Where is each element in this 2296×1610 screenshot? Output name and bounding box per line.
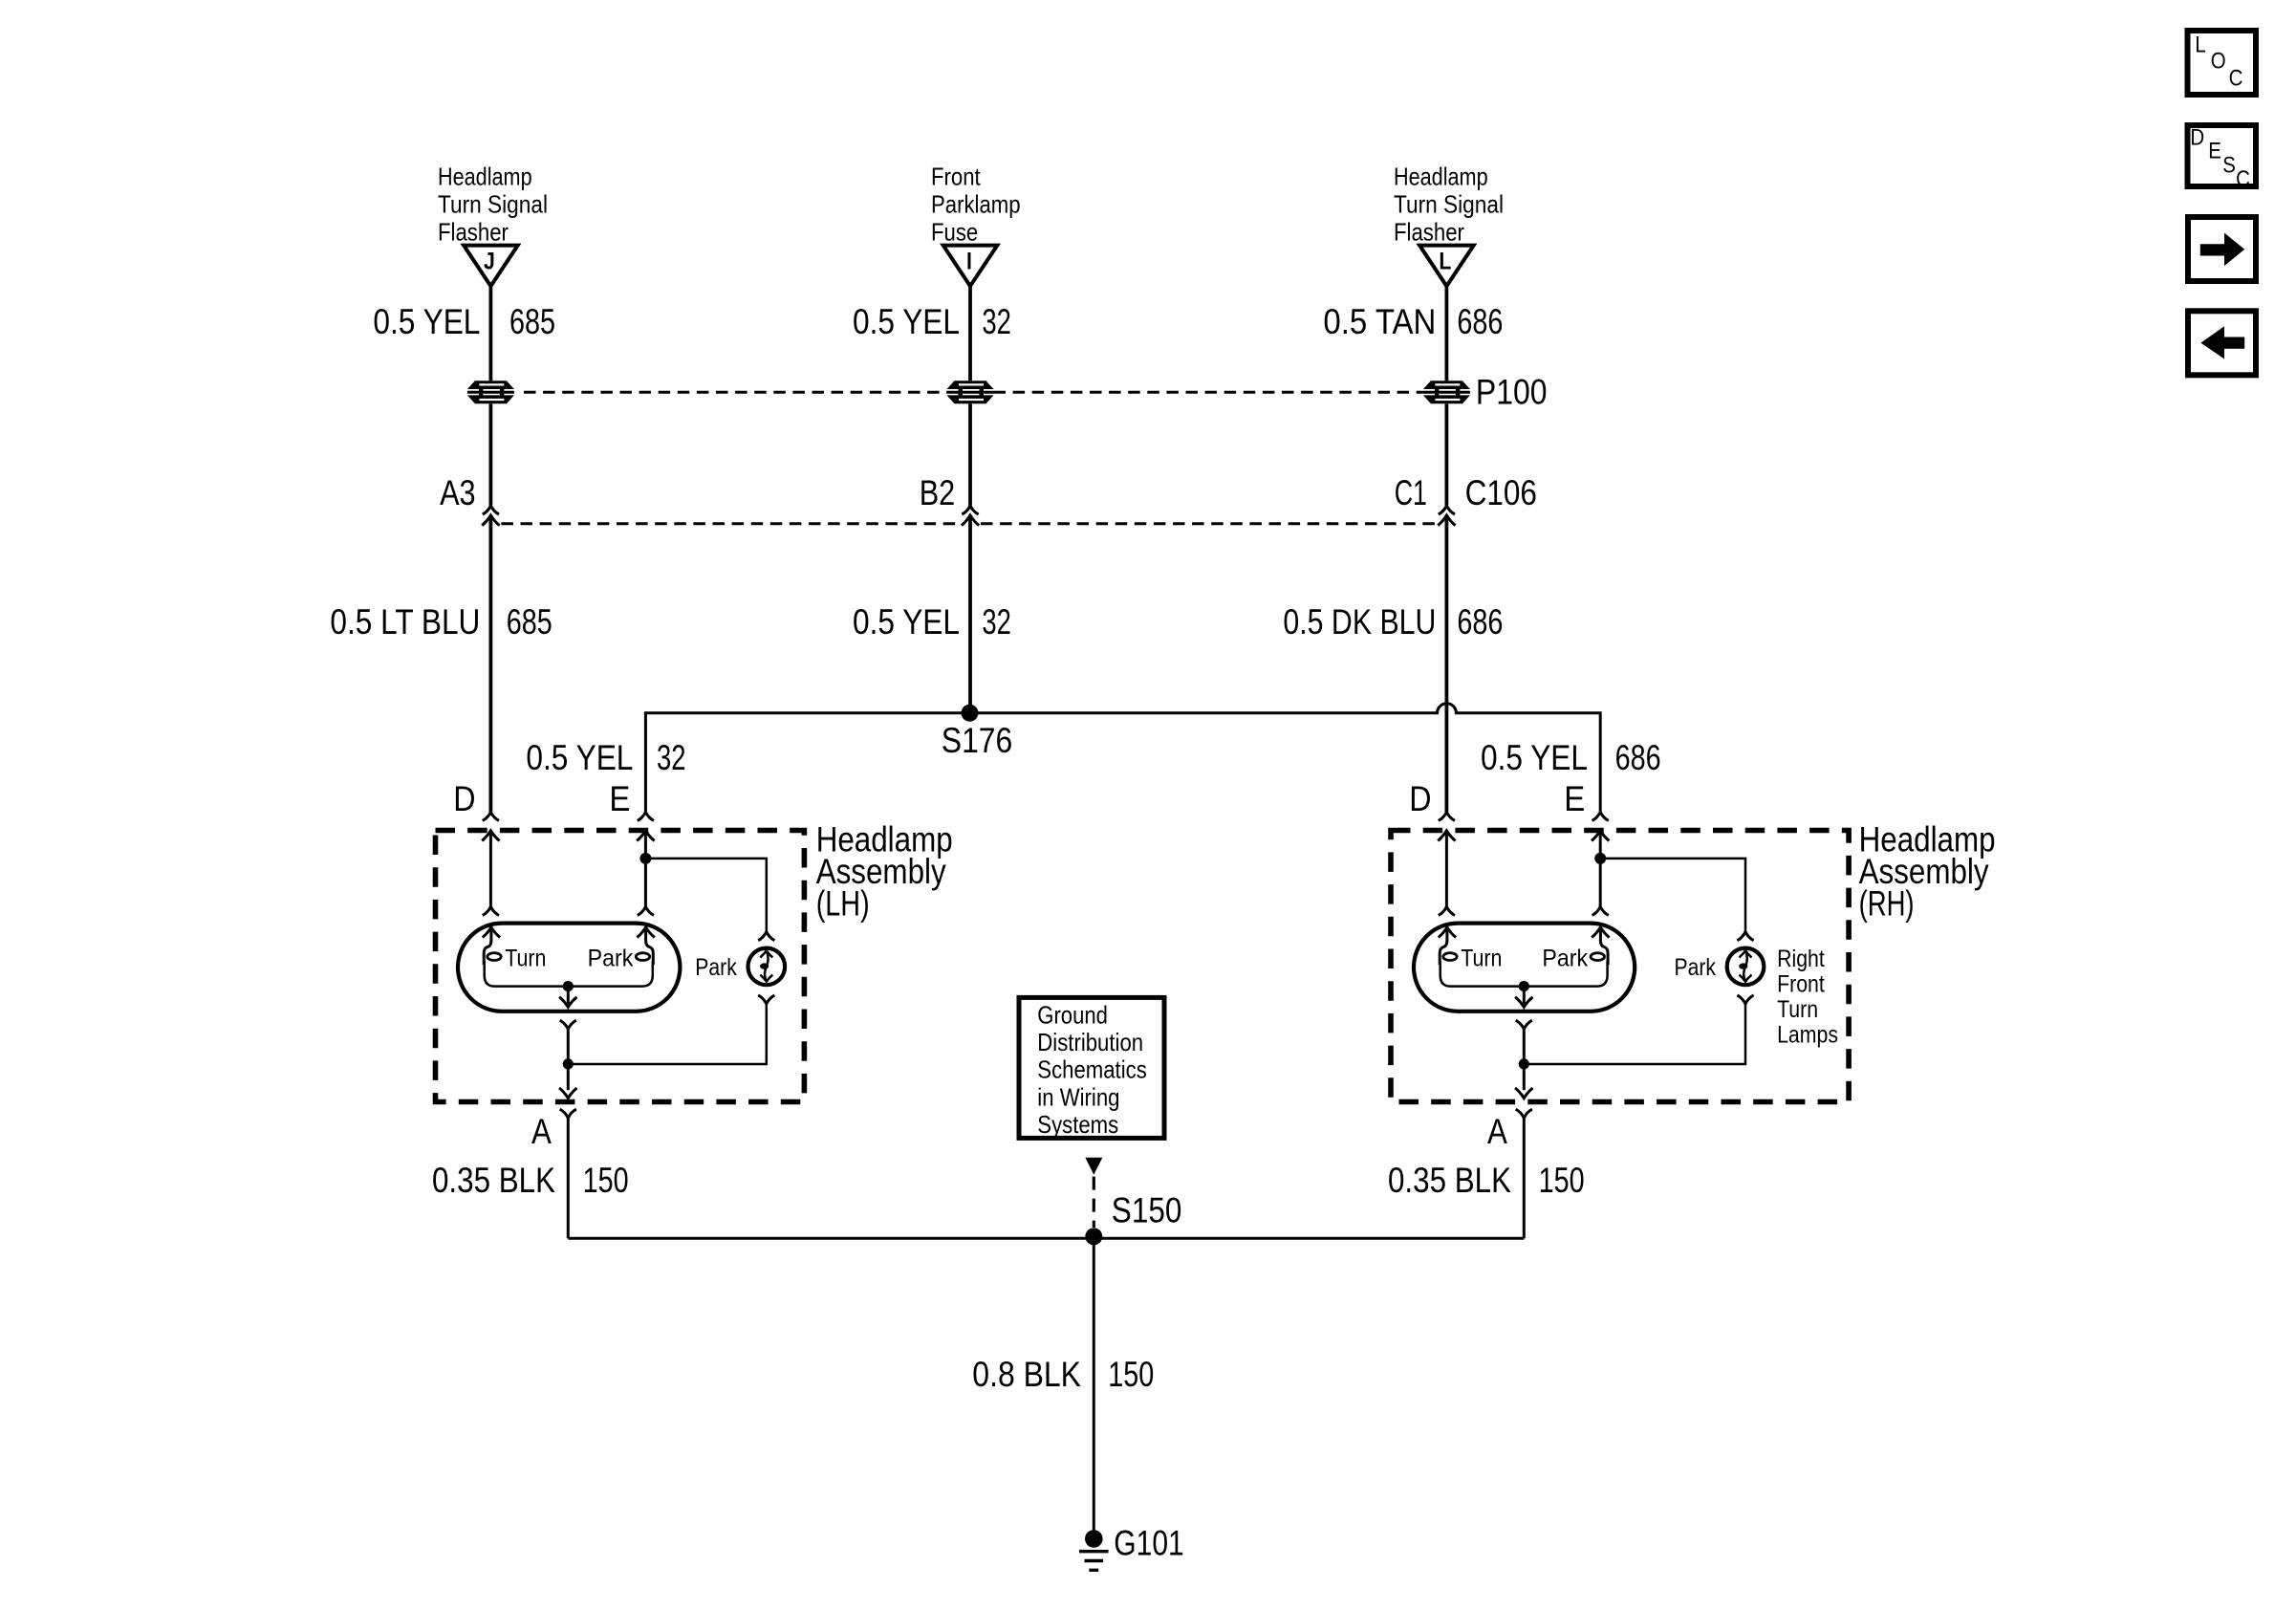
reference arrowhead	[1085, 1158, 1102, 1175]
dashed pass-through line P100	[524, 391, 947, 394]
svg-text:L: L	[2195, 33, 2205, 58]
svg-text:0.35 BLK: 0.35 BLK	[1388, 1161, 1511, 1200]
svg-text:150: 150	[1108, 1355, 1154, 1394]
svg-text:685: 685	[507, 602, 552, 642]
wire 150 BLK (A RH to S150 bus)	[1523, 1118, 1526, 1238]
fork below bulb	[1516, 1020, 1532, 1029]
terminal D (LH)	[482, 812, 499, 915]
svg-text:A: A	[531, 1112, 552, 1151]
nav button DESC	[2188, 125, 2257, 193]
splice S176 junction dot	[962, 705, 979, 722]
dashed reference wire to S150	[1093, 1177, 1095, 1228]
wire E branch to park lamp	[1600, 859, 1745, 932]
turn/park combination bulb (stadium)	[1414, 924, 1635, 1012]
bulb common junction dot	[1519, 981, 1529, 991]
svg-text:685: 685	[509, 302, 555, 341]
power triangle J (Headlamp Turn Signal Flasher)	[464, 246, 518, 287]
wire bulb to lamp-common junction	[1523, 1029, 1526, 1090]
svg-text:Front: Front	[931, 163, 981, 191]
svg-text:Turn Signal: Turn Signal	[438, 190, 548, 219]
park lamp return wire	[568, 1004, 767, 1064]
bulb common line	[1440, 961, 1608, 987]
wire 32 YEL (B2 to splice S176)	[968, 515, 972, 713]
svg-text:686: 686	[1457, 302, 1503, 341]
svg-text:Turn Signal: Turn Signal	[1394, 190, 1504, 219]
wire 150 BLK (A LH to S150 bus)	[567, 1118, 570, 1238]
wire E to turn/park bulb	[1599, 859, 1602, 906]
bulb outlet arrow	[567, 987, 570, 1008]
nav button LOC	[2188, 31, 2257, 95]
park lamp bulb	[1727, 948, 1765, 986]
dashed connector line C106	[501, 522, 960, 525]
svg-text:Ground: Ground	[1037, 1001, 1108, 1030]
pin A3 of C106	[482, 506, 499, 526]
svg-text:0.8 BLK: 0.8 BLK	[972, 1355, 1081, 1394]
svg-text:C1: C1	[1395, 473, 1427, 512]
wire 685 LT BLU (A3 to terminal D LH)	[489, 515, 493, 812]
power triangle L (Headlamp Turn Signal Flasher)	[1419, 246, 1474, 287]
svg-text:S150: S150	[1112, 1190, 1182, 1229]
svg-text:Turn: Turn	[1461, 946, 1502, 972]
svg-text:32: 32	[982, 602, 1011, 642]
terminal of park lamp (top)	[758, 932, 774, 941]
svg-text:32: 32	[657, 738, 686, 777]
svg-text:Turn: Turn	[505, 946, 546, 972]
svg-text:D: D	[453, 779, 475, 818]
svg-text:0.5 LT BLU: 0.5 LT BLU	[330, 602, 480, 642]
junction dot on E wire	[639, 853, 651, 864]
park filament contact	[637, 927, 654, 938]
turn filament contact	[483, 927, 500, 938]
svg-text:P100: P100	[1476, 373, 1548, 412]
wire E to turn/park bulb	[644, 859, 647, 906]
svg-text:Park: Park	[1542, 946, 1588, 972]
svg-text:150: 150	[583, 1161, 629, 1200]
svg-text:Park: Park	[695, 954, 737, 981]
terminal of park lamp (bottom)	[1737, 995, 1753, 1004]
svg-text:C: C	[2236, 166, 2250, 192]
svg-text:G101: G101	[1114, 1523, 1183, 1562]
park lamp return wire	[1524, 1004, 1745, 1064]
svg-text:E: E	[1564, 779, 1585, 818]
wire 685 YEL (grommet to C106 A3)	[489, 403, 493, 505]
splice S150 junction dot	[1085, 1228, 1102, 1245]
wire E branch to park lamp	[645, 859, 766, 932]
svg-text:0.5 YEL: 0.5 YEL	[373, 302, 480, 341]
svg-text:O: O	[2211, 49, 2226, 75]
svg-text:0.5 YEL: 0.5 YEL	[853, 302, 960, 341]
park filament contact	[1592, 927, 1609, 938]
svg-text:Flasher: Flasher	[1394, 217, 1464, 246]
svg-text:A3: A3	[440, 473, 476, 512]
nav button next (right arrow)	[2188, 217, 2256, 281]
svg-text:in Wiring: in Wiring	[1037, 1082, 1119, 1111]
wire 150 BLK 0.8 (S150 to G101)	[1093, 1238, 1095, 1530]
svg-text:686: 686	[1457, 602, 1503, 642]
terminal D (RH)	[1438, 812, 1455, 915]
svg-text:0.5 YEL: 0.5 YEL	[1481, 738, 1588, 777]
svg-text:32: 32	[982, 302, 1011, 341]
svg-text:Park: Park	[1675, 954, 1717, 981]
junction dot lamp common	[1519, 1058, 1529, 1069]
svg-text:A: A	[1487, 1112, 1507, 1151]
turn/park combination bulb (stadium)	[458, 924, 680, 1012]
svg-text:0.5 YEL: 0.5 YEL	[526, 738, 633, 777]
svg-text:L: L	[1439, 249, 1451, 275]
terminal A (RH)	[1515, 1088, 1532, 1118]
svg-text:0.5 TAN: 0.5 TAN	[1323, 302, 1436, 341]
svg-text:D: D	[1409, 779, 1431, 818]
svg-text:Right: Right	[1777, 946, 1825, 972]
headlamp assembly (LH) box	[436, 831, 805, 1102]
svg-text:S: S	[2222, 153, 2236, 179]
svg-text:C: C	[2229, 66, 2243, 92]
svg-text:Turn: Turn	[1777, 996, 1818, 1023]
svg-text:Distribution: Distribution	[1037, 1028, 1143, 1056]
svg-text:0.5 YEL: 0.5 YEL	[853, 602, 960, 642]
terminal A (LH)	[559, 1088, 576, 1118]
svg-text:Schematics: Schematics	[1037, 1055, 1147, 1084]
svg-text:B2: B2	[920, 473, 956, 512]
terminal E (RH)	[1592, 812, 1609, 859]
svg-text:C106: C106	[1465, 473, 1537, 512]
svg-text:Headlamp: Headlamp	[438, 163, 532, 191]
svg-text:E: E	[2208, 139, 2221, 164]
svg-text:Parklamp: Parklamp	[931, 190, 1021, 219]
svg-text:(RH): (RH)	[1859, 883, 1915, 923]
svg-text:Front: Front	[1777, 971, 1825, 998]
branch wire 32 YEL left (S176 to E LH)	[645, 713, 970, 813]
svg-text:(LH): (LH)	[816, 883, 870, 923]
svg-text:I: I	[966, 249, 972, 275]
svg-text:E: E	[609, 779, 630, 818]
svg-text:J: J	[484, 249, 495, 275]
turn filament contact	[1439, 927, 1456, 938]
wire 685 YEL (J to grommet)	[489, 286, 493, 381]
terminal of park lamp (top)	[1737, 932, 1753, 941]
svg-text:0.5 DK BLU: 0.5 DK BLU	[1283, 602, 1436, 642]
bulb common line	[485, 961, 653, 987]
svg-text:Headlamp: Headlamp	[1394, 163, 1488, 191]
svg-text:150: 150	[1539, 1161, 1585, 1200]
headlamp assembly (RH) box	[1391, 831, 1849, 1102]
svg-text:Lamps: Lamps	[1777, 1022, 1838, 1049]
fork below bulb	[560, 1020, 576, 1029]
wire bulb to lamp-common junction	[567, 1029, 570, 1090]
bulb outlet arrow	[1523, 987, 1526, 1008]
wire 32 YEL (grommet to C106 B2)	[968, 403, 972, 505]
power triangle I (Front Parklamp Fuse)	[943, 246, 998, 287]
svg-text:S176: S176	[942, 721, 1013, 760]
bulb common junction dot	[563, 981, 574, 991]
grommet P100 (left)	[467, 381, 514, 389]
wire 32 YEL (I to grommet)	[968, 286, 972, 381]
svg-text:0.35 BLK: 0.35 BLK	[432, 1161, 555, 1200]
wire 686 DK BLU (C1 to terminal D RH)	[1445, 515, 1449, 812]
terminal E (LH)	[637, 812, 654, 859]
ground bus wire S150	[568, 1237, 1524, 1240]
grommet P100 (middle)	[947, 381, 994, 389]
ground G101	[1079, 1530, 1109, 1570]
pin B2 of C106	[962, 506, 979, 526]
terminal of park lamp (bottom)	[758, 995, 774, 1004]
pin C1 of C106	[1438, 506, 1455, 526]
grommet P100 (right)	[1423, 381, 1470, 389]
wire 686 TAN (L to grommet)	[1445, 286, 1449, 381]
svg-text:Fuse: Fuse	[931, 217, 978, 246]
junction dot lamp common	[563, 1058, 574, 1069]
ground distribution schematics reference box	[1019, 997, 1164, 1138]
svg-text:Systems: Systems	[1037, 1110, 1118, 1139]
junction dot on E wire	[1594, 853, 1606, 864]
svg-text:686: 686	[1615, 738, 1661, 777]
wire 686 TAN (grommet to C106 C1)	[1445, 403, 1449, 505]
svg-text:Park: Park	[588, 946, 634, 972]
branch wire 686 YEL right with hop over DK BLU wire (S176 to E RH)	[970, 704, 1600, 812]
park lamp bulb	[748, 948, 786, 986]
nav button back (left arrow)	[2188, 311, 2256, 375]
svg-text:Flasher: Flasher	[438, 217, 509, 246]
svg-text:D: D	[2190, 125, 2204, 151]
